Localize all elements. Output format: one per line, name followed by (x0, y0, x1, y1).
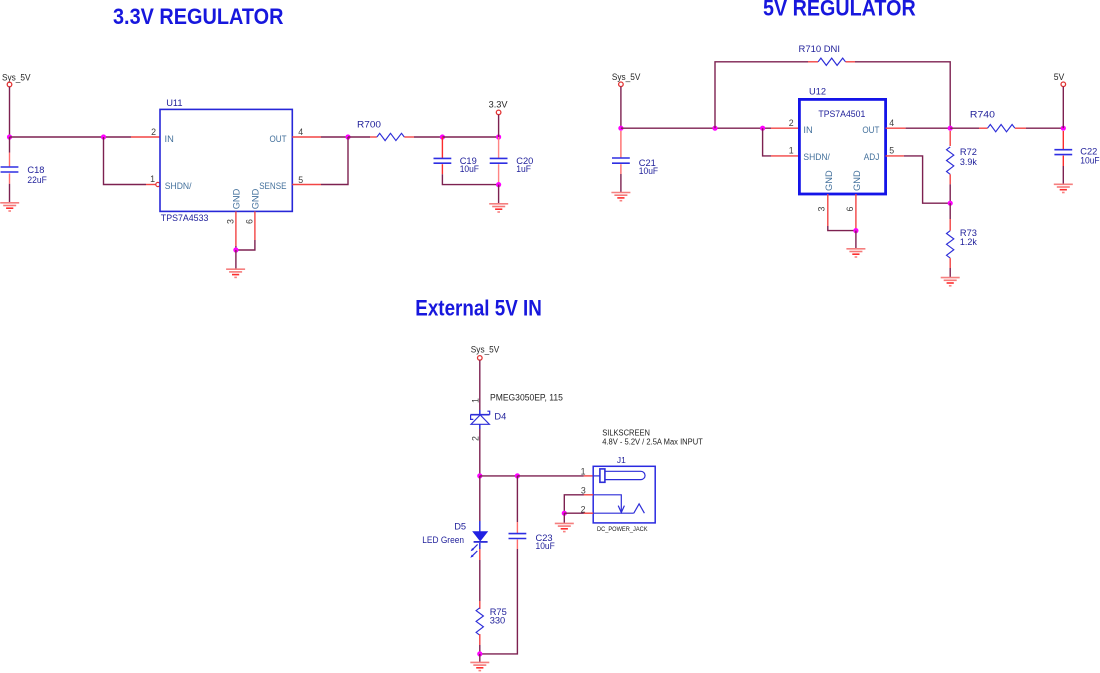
svg-text:IN: IN (165, 134, 174, 144)
ground J1 (555, 523, 574, 531)
pin 6 stub (U11 GND) (254, 211, 256, 240)
svg-text:4: 4 (889, 118, 894, 128)
svg-text:GND: GND (251, 188, 261, 209)
capacitor C19 lead bottom (441, 164, 443, 174)
junction node C19 top (440, 134, 445, 139)
wire SENSE feedback (321, 137, 348, 185)
wire SHDN drop (104, 137, 147, 185)
svg-text:R710 DNI: R710 DNI (799, 44, 841, 54)
wire D4 to node (479, 429, 481, 476)
wire C19 node to C20 node (442, 136, 498, 138)
svg-text:1uF: 1uF (516, 164, 531, 174)
wire J1 gnd lead (563, 513, 565, 523)
svg-text:TPS7A4501: TPS7A4501 (818, 109, 865, 119)
wire C21 to ground (620, 174, 622, 192)
wire U12 gnd lead (855, 231, 857, 249)
terminal Sys_5V (ext) (478, 356, 483, 361)
svg-text:J1: J1 (617, 455, 626, 465)
svg-text:330: 330 (490, 615, 506, 625)
wire J1 pin3 stub (584, 494, 593, 496)
svg-text:LED Green: LED Green (422, 535, 464, 545)
capacitor C22 lead bottom (1062, 156, 1064, 166)
capacitor C21 lead bottom (620, 164, 622, 174)
terminal 5V (1061, 82, 1066, 87)
terminal 3.3V (496, 110, 501, 115)
junction node SHDN tap (101, 134, 106, 139)
wire R740 to C22 node (1026, 127, 1063, 129)
resistor R700 (377, 133, 404, 140)
wire R710 lead right (846, 61, 856, 63)
wire OUT to node (321, 136, 348, 138)
svg-text:3: 3 (225, 219, 235, 224)
svg-text:PMEG3050EP, 115: PMEG3050EP, 115 (490, 392, 563, 403)
svg-text:OUT: OUT (862, 125, 879, 135)
J1 pin2 sleeve contact (593, 504, 644, 513)
wire U12 pin2 stub (771, 127, 799, 129)
wire R72 lead top (949, 131, 951, 146)
svg-text:D5: D5 (454, 522, 466, 532)
svg-text:DC_POWER_JACK: DC_POWER_JACK (597, 526, 648, 533)
svg-text:U12: U12 (809, 87, 826, 97)
svg-text:1: 1 (470, 398, 480, 403)
capacitor C18 (1, 167, 19, 172)
wire D5 lead bottom (479, 549, 481, 560)
junction node OUT/SENSE (345, 134, 350, 139)
junction node U12 GND (853, 228, 858, 233)
svg-text:1: 1 (150, 174, 155, 184)
svg-text:C18: C18 (27, 165, 44, 175)
wire pin3 to gnd node (564, 495, 584, 513)
junction node ext gnd (477, 651, 482, 656)
svg-text:3.9k: 3.9k (960, 157, 977, 167)
wire junction to C18 (9, 137, 11, 153)
ground C21 (611, 193, 630, 201)
LED D5 emission arrows (470, 544, 477, 557)
svg-text:3.3V REGULATOR: 3.3V REGULATOR (113, 4, 284, 29)
svg-text:2: 2 (470, 436, 480, 441)
pin 3 stub (U11 GND) (235, 211, 237, 246)
svg-text:ADJ: ADJ (864, 152, 880, 162)
svg-text:10uF: 10uF (639, 166, 659, 176)
wire pin6 to junction (236, 240, 255, 250)
svg-text:2: 2 (789, 118, 794, 128)
wire J1 pin1 stub (584, 475, 593, 477)
op-amp U11 body (TPS7A4533) (160, 109, 292, 211)
capacitor C19 lead top (441, 137, 443, 158)
wire C23 node down (516, 476, 518, 522)
wire pin4 stub (292, 136, 321, 138)
svg-text:OUT: OUT (270, 134, 287, 144)
wire R710 lead left (808, 61, 818, 63)
svg-text:6: 6 (845, 207, 855, 212)
wire Sys_5V down to D4 (479, 360, 481, 410)
wire C19 bottom (442, 174, 498, 184)
wire U12 pin3 corner (828, 226, 856, 231)
junction node OUT/R72 (948, 126, 953, 131)
svg-text:GND: GND (231, 188, 241, 209)
svg-text:SILKSCREEN: SILKSCREEN (602, 428, 650, 437)
junction node U11 GND (233, 247, 238, 252)
J1 center pin symbol (593, 469, 645, 482)
capacitor C18 lead bottom (9, 173, 11, 183)
svg-text:D4: D4 (494, 411, 506, 421)
wire U12 SHDN drop (763, 128, 771, 156)
svg-text:4.8V - 5.2V / 2.5A Max INPUT: 4.8V - 5.2V / 2.5A Max INPUT (602, 438, 703, 447)
svg-text:IN: IN (803, 125, 812, 135)
wire node to D5 (479, 476, 481, 521)
svg-text:3.3V: 3.3V (489, 99, 509, 110)
capacitor C23 (509, 534, 527, 539)
wire ext gnd lead (479, 654, 481, 662)
capacitor C21 lead top (620, 131, 622, 158)
wire R700 to C19 node (414, 136, 442, 138)
wire C22 to ground (1062, 166, 1064, 184)
svg-text:R72: R72 (960, 147, 977, 157)
wire 5V terminal (1062, 87, 1064, 129)
capacitor C20 lead bottom (498, 164, 500, 184)
J1 pin3 contact arrow (593, 495, 624, 513)
wire R740 lead left (979, 127, 988, 129)
wire D5 to R75 (479, 560, 481, 601)
junction node C20 bottom (496, 182, 501, 187)
junction node C23 top (515, 473, 520, 478)
svg-text:GND: GND (852, 170, 862, 191)
svg-text:SHDN/: SHDN/ (803, 152, 830, 162)
capacitor C20 lead top (498, 137, 500, 158)
svg-text:5: 5 (298, 175, 303, 185)
pin 3 stub (U12 GND) (827, 194, 829, 226)
wire R710 up (715, 62, 808, 128)
svg-text:10uF: 10uF (536, 541, 556, 551)
wire 3.3V terminal (498, 115, 500, 137)
junction node SHDN tap (U12) (760, 126, 765, 131)
wire U11 gnd lead (235, 250, 237, 269)
junction node Sys_5V/C18 (7, 134, 12, 139)
wire J1 pin2 stub (584, 512, 593, 514)
wire R700 lead right (404, 136, 414, 138)
wire node to J1 pin1 (517, 475, 583, 477)
wire Sys_5V rail to IN (10, 136, 132, 138)
wire R73 lead top (949, 219, 951, 231)
junction node R710 tap (712, 126, 717, 131)
svg-text:TPS7A4533: TPS7A4533 (161, 213, 209, 223)
svg-text:Sys_5V: Sys_5V (471, 345, 500, 356)
svg-text:1: 1 (581, 467, 586, 477)
op-amp U12 body (TPS7A4501) (799, 99, 885, 194)
ground U11 (226, 269, 245, 277)
ground R73 (941, 278, 960, 286)
diode D4 (schottky) (470, 410, 489, 429)
wire R75 lead bottom (479, 634, 481, 645)
capacitor C22 (1054, 150, 1072, 155)
svg-text:U11: U11 (166, 98, 182, 108)
wire U12 pin5 stub (886, 155, 904, 157)
resistor R75 (476, 608, 483, 635)
resistor R740 (988, 125, 1015, 132)
junction node ADJ/R73 (948, 201, 953, 206)
svg-text:SENSE: SENSE (259, 181, 286, 191)
wire R75 lead top (479, 601, 481, 609)
wire C20 to ground (498, 185, 500, 204)
junction node C22 top (1061, 126, 1066, 131)
resistor R72 (947, 147, 954, 174)
terminal Sys_5V (5V reg) (619, 82, 624, 87)
junction node ext5v A (477, 473, 482, 478)
connector J1 body (DC_POWER_JACK) (593, 466, 655, 523)
capacitor C19 (434, 158, 452, 163)
wire pin2 stub (131, 136, 160, 138)
wire OUT to R700 (348, 136, 370, 138)
pin 6 stub (U12 GND) (855, 194, 857, 231)
wire C23 bottom (480, 549, 518, 654)
svg-text:10uF: 10uF (460, 164, 480, 174)
svg-text:6: 6 (245, 219, 255, 224)
wire C18 to ground (9, 184, 11, 203)
wire R72 lead bottom (949, 174, 951, 184)
svg-text:R700: R700 (357, 119, 381, 129)
capacitor C23 lead top (516, 522, 518, 534)
pin 1 inversion bubble (156, 182, 160, 186)
wire R75 to node (479, 645, 481, 654)
svg-text:1.2k: 1.2k (960, 237, 977, 247)
wire input rail (621, 127, 771, 129)
svg-text:R740: R740 (970, 109, 995, 119)
svg-text:SHDN/: SHDN/ (165, 181, 192, 191)
junction node J1 gnd (562, 511, 567, 516)
capacitor C22 lead top (1062, 131, 1064, 150)
capacitor C21 (612, 158, 630, 163)
svg-text:GND: GND (824, 170, 834, 191)
ground ext 5V (470, 662, 489, 670)
svg-text:5: 5 (889, 145, 894, 155)
wire gnd node to pin2 (564, 512, 584, 514)
ground U12 (846, 249, 865, 257)
svg-text:2: 2 (151, 127, 156, 137)
wire pin1 stub (146, 184, 156, 186)
wire R73 lead bottom (949, 258, 951, 268)
svg-text:4: 4 (298, 127, 303, 137)
wire R710 to OUT node (855, 62, 950, 128)
svg-text:2: 2 (581, 504, 586, 514)
svg-text:Sys_5V: Sys_5V (2, 72, 31, 83)
svg-text:10uF: 10uF (1080, 155, 1100, 165)
resistor R710 (818, 58, 845, 65)
wire OUT to R740 (950, 127, 979, 129)
LED D5 (473, 521, 488, 549)
wire U12 pin4 stub (886, 127, 906, 129)
capacitor C23 lead bottom (516, 540, 518, 550)
svg-text:Sys_5V: Sys_5V (612, 72, 641, 83)
capacitor C20 (490, 158, 508, 163)
resistor R73 (947, 231, 954, 258)
wire node to R73 (949, 203, 951, 219)
wire U12 pin1 stub (771, 155, 799, 157)
wire ADJ to node (904, 156, 950, 203)
wire pin3 to junction (235, 246, 237, 250)
wire pin5 stub (292, 184, 321, 186)
wire R700 lead left (370, 136, 377, 138)
wire Sys_5V vertical (9, 87, 11, 137)
junction node C20 top (496, 134, 501, 139)
terminal Sys_5V (7, 82, 12, 87)
capacitor C18 lead top (9, 153, 11, 167)
wire R72 to ADJ node (949, 184, 951, 203)
wire OUT to R72 node (906, 127, 951, 129)
ground C20 (489, 204, 508, 212)
svg-text:External 5V IN: External 5V IN (415, 295, 542, 320)
svg-text:3: 3 (816, 207, 826, 212)
wire R740 lead right (1015, 127, 1026, 129)
ground C18 (0, 203, 19, 211)
junction node C21 top (618, 126, 623, 131)
wire node to C23 node (480, 475, 518, 477)
wire R73 to ground (949, 268, 951, 277)
ground C22 (1054, 184, 1073, 192)
svg-text:22uF: 22uF (27, 175, 47, 185)
svg-text:1: 1 (789, 145, 794, 155)
wire Sys_5V vertical (5V reg) (620, 87, 622, 129)
svg-text:5V REGULATOR: 5V REGULATOR (763, 0, 916, 21)
